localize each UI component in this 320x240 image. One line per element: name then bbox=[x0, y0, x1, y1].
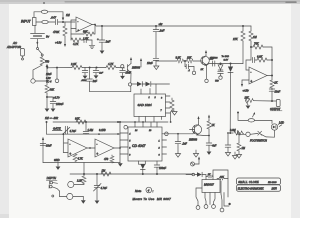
wire zener down to LFO row bbox=[229, 72, 231, 133]
ground under R13 bbox=[246, 106, 251, 109]
ground under C3 bbox=[100, 51, 105, 54]
wire Q2 collector to +9V arrow bbox=[205, 53, 207, 56]
IC U5 CD4047 bbox=[128, 127, 162, 161]
wire bias to U3 + input bbox=[242, 80, 249, 84]
svg-text:2: 2 bbox=[154, 97, 157, 99]
svg-text:10uF: 10uF bbox=[46, 73, 52, 76]
ground under C5 open bbox=[155, 61, 157, 66]
wire Q4 emitter down bbox=[130, 73, 132, 83]
emitter row wire bbox=[207, 64, 244, 66]
svg-text:4: 4 bbox=[148, 188, 150, 192]
capacitor C2 bbox=[81, 39, 84, 41]
junction ring bbox=[121, 65, 124, 68]
ground symbols under footswitch area bbox=[234, 152, 236, 155]
svg-text:1uF: 1uF bbox=[99, 73, 103, 75]
capacitor C3 1uF bbox=[101, 26, 103, 40]
svg-text:2: 2 bbox=[158, 148, 161, 150]
wire oval to LED bbox=[255, 120, 272, 123]
switch oval FS1 bbox=[248, 119, 254, 122]
svg-text:.1uF: .1uF bbox=[182, 143, 187, 146]
svg-text:1: 1 bbox=[159, 141, 160, 143]
svg-text:SAD 1024: SAD 1024 bbox=[138, 103, 152, 107]
svg-text:+: + bbox=[250, 80, 252, 84]
op-amp U1A bbox=[76, 17, 92, 32]
pad circle with wire to +9V arrow bbox=[191, 162, 195, 166]
resistor R4 56K feedback bbox=[84, 32, 94, 36]
svg-text:7: 7 bbox=[161, 110, 163, 112]
feedback loop wire around preamp bbox=[90, 81, 131, 92]
svg-text:2N5088: 2N5088 bbox=[131, 68, 141, 70]
resistor R5 4.7K bbox=[70, 34, 72, 40]
svg-text:2.2K: 2.2K bbox=[76, 180, 82, 183]
svg-text:6: 6 bbox=[129, 148, 131, 150]
svg-text:10K: 10K bbox=[187, 56, 192, 59]
svg-text:1K: 1K bbox=[201, 69, 204, 71]
battery B1 9V bbox=[34, 26, 36, 34]
scan speck bbox=[43, 2, 45, 4]
resistor R25 1K bbox=[208, 120, 210, 121]
svg-text:1K: 1K bbox=[212, 124, 215, 127]
svg-text::: : bbox=[153, 189, 154, 193]
cross contact bbox=[258, 131, 262, 135]
capacitor C23 to ground bbox=[84, 68, 86, 71]
junction ring 2 bbox=[128, 83, 131, 86]
svg-text:4: 4 bbox=[129, 133, 131, 136]
preamp row wire bbox=[47, 67, 72, 69]
ground under R27 bbox=[236, 155, 241, 159]
ground under C17 bbox=[175, 154, 180, 158]
svg-text:1M ⇒ ~10k: 1M ⇒ ~10k bbox=[45, 116, 59, 120]
svg-text:MN3007: MN3007 bbox=[204, 183, 214, 187]
capacitor C18 10uF under 4047 bbox=[156, 161, 158, 165]
svg-text:+: + bbox=[77, 28, 79, 32]
svg-text:100uF: 100uF bbox=[159, 167, 167, 170]
resistor R24 1K above box bbox=[206, 176, 208, 178]
resistor R19 91K bbox=[76, 120, 86, 124]
svg-text:To SAD: To SAD bbox=[222, 55, 230, 58]
op-amp U4A bbox=[68, 139, 87, 157]
resistor R12 1K bbox=[270, 80, 274, 88]
svg-text:10uF: 10uF bbox=[46, 145, 52, 148]
resistor R20 4.7K below U4A bbox=[74, 153, 76, 155]
node C bbox=[184, 60, 186, 62]
LFO line to CD4047 bbox=[53, 121, 168, 123]
svg-text:.0082: .0082 bbox=[81, 80, 87, 82]
SAD1024 top pin stubs bbox=[149, 89, 151, 95]
svg-text:1.5M: 1.5M bbox=[88, 129, 94, 132]
resistor R21 470 below U4B bbox=[111, 155, 113, 156]
svg-text:1M: 1M bbox=[66, 13, 70, 17]
resistor R23 2.2K vertical bbox=[83, 163, 85, 177]
svg-text:-: - bbox=[77, 19, 78, 23]
op-amp U4B bbox=[95, 139, 114, 157]
base stub bbox=[190, 129, 195, 131]
svg-text:56K: 56K bbox=[83, 29, 88, 33]
resistor R15 680 bbox=[45, 85, 49, 93]
output jack J2 bbox=[276, 100, 280, 107]
svg-text:4uF: 4uF bbox=[212, 145, 217, 148]
output wire U4A bbox=[87, 147, 95, 149]
svg-text:4.7uF: 4.7uF bbox=[101, 187, 108, 190]
clock wire 4047 to Q3 base bbox=[162, 133, 193, 135]
svg-text:FOOTSWITCH: FOOTSWITCH bbox=[250, 140, 267, 143]
resistor R22 1M bbox=[101, 172, 111, 176]
resistor R27 1M bbox=[238, 133, 240, 143]
wire cross to LED cathode bbox=[261, 130, 275, 137]
arrowhead down to node bbox=[62, 18, 64, 21]
input jack J1 bbox=[33, 18, 37, 26]
svg-text:100uF: 100uF bbox=[56, 102, 64, 106]
wires MN3007 to pads bbox=[196, 188, 202, 206]
wire emitter to diode row bbox=[132, 83, 137, 85]
feedback wire U4A bbox=[85, 122, 87, 131]
arrow above bbox=[253, 113, 255, 117]
ground under C11 bbox=[51, 109, 56, 112]
svg-text:6.8v: 6.8v bbox=[46, 77, 51, 80]
wire jack tip to bypass switch bbox=[34, 12, 41, 18]
svg-text:DEPTH: DEPTH bbox=[47, 176, 57, 180]
svg-text:6.8K: 6.8K bbox=[257, 54, 263, 58]
interstage wire bbox=[47, 133, 121, 135]
transistor Q3 2N5088 bbox=[192, 125, 201, 134]
wire to arrow node bbox=[48, 12, 63, 18]
output wire U4B to 4047 bbox=[114, 147, 120, 149]
node H bbox=[271, 100, 273, 102]
svg-text:CD 4047: CD 4047 bbox=[132, 144, 145, 148]
node G bbox=[250, 46, 252, 48]
node I bbox=[89, 67, 91, 69]
svg-text:4.7K: 4.7K bbox=[108, 62, 114, 66]
SAD right pin stubs bbox=[166, 95, 171, 97]
svg-text:ELECTRO-HARMONIX: ELECTRO-HARMONIX bbox=[238, 188, 264, 191]
ground open beside SAD bbox=[172, 110, 175, 111]
ground under C19 bbox=[95, 201, 100, 204]
battery switch wire bbox=[37, 39, 39, 48]
svg-text:2.2K: 2.2K bbox=[70, 62, 77, 66]
wire lug2 to ground bbox=[73, 196, 83, 200]
capacitor C15 4.7uF trimmer bbox=[65, 126, 67, 134]
svg-text:14: 14 bbox=[135, 129, 138, 132]
svg-text:1uF: 1uF bbox=[93, 80, 98, 83]
depth wire row bbox=[70, 173, 194, 175]
wire into U3 inverting input bbox=[246, 60, 251, 70]
resistor R29 10K bbox=[217, 178, 219, 180]
wire rails down to pads bbox=[220, 181, 222, 194]
svg-text:1M: 1M bbox=[253, 35, 257, 39]
top scan edge line bbox=[65, 1, 296, 3]
switch SW1b contact oval bbox=[42, 20, 48, 23]
svg-text:10uF: 10uF bbox=[147, 62, 153, 65]
ground under R15 bbox=[45, 109, 50, 112]
svg-text:ADAPTOR: ADAPTOR bbox=[6, 45, 21, 49]
capacitor C12 to ground bbox=[96, 67, 98, 69]
svg-text:1K: 1K bbox=[208, 174, 211, 176]
wire ring to +9V line bbox=[35, 80, 47, 82]
ground under C2 three bars bbox=[89, 44, 95, 46]
IC U6 MN3007 bbox=[202, 180, 220, 193]
svg-text:4.7K: 4.7K bbox=[73, 42, 79, 46]
diode D3 bbox=[137, 82, 142, 87]
ground under C20 bbox=[207, 152, 212, 155]
svg-text:1uF: 1uF bbox=[106, 40, 111, 44]
node J bbox=[85, 121, 87, 123]
svg-text:Mours To Use MN 3007: Mours To Use MN 3007 bbox=[133, 197, 172, 201]
emitter join wire bbox=[199, 134, 210, 137]
ground symbol pair left bbox=[195, 150, 197, 153]
wire jack to switch oval bbox=[36, 21, 41, 23]
capacitor C22 10uF bbox=[40, 144, 46, 146]
wire noninverting input bbox=[71, 28, 76, 30]
svg-text:8: 8 bbox=[161, 98, 163, 100]
svg-text:INPUT: INPUT bbox=[21, 19, 32, 23]
svg-text:10K: 10K bbox=[245, 97, 250, 100]
CD4047 left pin rail bbox=[119, 122, 121, 163]
svg-text:3.3K: 3.3K bbox=[176, 56, 181, 59]
svg-text:.1uF: .1uF bbox=[159, 29, 165, 33]
resistor R8 27K vertical bbox=[242, 25, 244, 27]
bottom pin stubs bbox=[138, 161, 140, 164]
wire to depth pot bbox=[74, 184, 84, 185]
node B bbox=[101, 25, 103, 27]
wire R14 down to power jack ring bbox=[33, 65, 42, 79]
wire U3 output bbox=[267, 75, 272, 77]
diode D5 under 4047 bbox=[140, 164, 145, 169]
resistor R17 4.7K bbox=[106, 66, 116, 70]
wire Q4 collector to +9V bbox=[130, 60, 132, 64]
transistor Q4 2N5088 bbox=[127, 65, 129, 72]
svg-text:27K: 27K bbox=[232, 37, 238, 41]
svg-text:470K: 470K bbox=[53, 30, 59, 34]
ground under C21 bbox=[225, 153, 230, 157]
capacitor C19 4.7uF bbox=[96, 174, 98, 185]
wire loop over box bbox=[213, 170, 228, 197]
wire node to zener circle bbox=[56, 68, 58, 80]
svg-text:1975: 1975 bbox=[272, 189, 278, 191]
main rail wire from U1A output bbox=[92, 24, 95, 26]
footswitch feed wire bbox=[237, 112, 239, 114]
svg-text:4.7K: 4.7K bbox=[78, 158, 83, 161]
resistor R26 6.3M bbox=[234, 131, 243, 135]
clock filter row wire bbox=[156, 60, 177, 62]
svg-text:470: 470 bbox=[104, 158, 109, 161]
diode D6 into MN3007 bbox=[186, 174, 192, 176]
svg-text:9: 9 bbox=[129, 155, 131, 157]
ground circle under C8 bbox=[219, 76, 222, 79]
IC U2 SAD1024 bbox=[134, 94, 166, 117]
capacitor C6 to ground circle bbox=[184, 61, 186, 67]
capacitor C7 1uF bbox=[213, 61, 215, 66]
ground at rail right end bbox=[119, 162, 121, 165]
capacitor C13 10uF to ground bbox=[122, 68, 124, 70]
rate pot lug circle and switch pole bbox=[238, 131, 246, 135]
svg-text:SMALL CLONE: SMALL CLONE bbox=[238, 181, 259, 184]
title block bbox=[237, 178, 281, 185]
svg-text:+4.5v: +4.5v bbox=[243, 90, 250, 93]
resistor R7 10K bbox=[187, 59, 194, 63]
capacitor C20 4uF bbox=[206, 143, 212, 145]
svg-text:+4.5v: +4.5v bbox=[55, 41, 62, 45]
jack ring contact bbox=[31, 79, 35, 83]
ground on rail bbox=[57, 163, 59, 167]
svg-text:.1: .1 bbox=[188, 70, 191, 72]
svg-text:Note: Note bbox=[135, 189, 142, 193]
svg-text:.047: .047 bbox=[51, 16, 57, 20]
svg-text:OUTPUT: OUTPUT bbox=[270, 108, 281, 111]
svg-text:1: 1 bbox=[149, 97, 150, 99]
svg-text:-: - bbox=[69, 142, 70, 146]
wire R7 to Q2 base bbox=[193, 60, 202, 62]
capacitor C17 on 4047 bbox=[177, 134, 179, 142]
svg-text:+: + bbox=[97, 37, 99, 41]
svg-text:9v: 9v bbox=[46, 35, 50, 39]
bias branch up-arrow left of rail bbox=[42, 140, 44, 163]
wire R18 down to LFO wire bbox=[171, 110, 172, 122]
resistor R13 to ground bbox=[254, 100, 273, 102]
LED DL1 bbox=[271, 124, 277, 130]
capacitor C14 1uF bbox=[87, 79, 93, 81]
svg-text:+: + bbox=[69, 152, 71, 156]
svg-text:GATE: GATE bbox=[53, 127, 61, 131]
svg-text:750: 750 bbox=[215, 81, 219, 83]
resistor R9 1M vertical bbox=[250, 26, 252, 31]
feedback loop wire U1A bbox=[94, 25, 95, 35]
svg-text:TO 4: TO 4 bbox=[46, 81, 52, 84]
wire into lug2 from left bbox=[60, 191, 67, 197]
svg-text:1uF: 1uF bbox=[210, 57, 215, 60]
resistor R3 470K vertical bbox=[64, 22, 66, 26]
solder pads bbox=[196, 206, 200, 210]
svg-text:-: - bbox=[250, 70, 251, 74]
+9V arrow mid bbox=[140, 61, 142, 67]
svg-text:6.8V: 6.8V bbox=[224, 60, 229, 62]
lower ground rail bbox=[43, 162, 120, 164]
svg-text:10uF: 10uF bbox=[275, 91, 281, 94]
resistor Q2 emitter to ground circle bbox=[206, 65, 208, 79]
capacitor C4 in series on drop to clock filter bbox=[155, 25, 157, 27]
wire C3 to ground bbox=[101, 42, 103, 50]
switch SW1a contact oval bbox=[41, 10, 47, 13]
diode D1 bbox=[220, 64, 222, 65]
svg-text:68K: 68K bbox=[50, 88, 55, 92]
svg-text:+9.7v: +9.7v bbox=[53, 96, 60, 100]
svg-text:4.7uF: 4.7uF bbox=[70, 130, 77, 133]
capacitor C8 bbox=[218, 71, 224, 73]
svg-text:10K: 10K bbox=[220, 176, 224, 178]
svg-text:LED: LED bbox=[279, 121, 284, 125]
right pin stubs bbox=[162, 139, 167, 141]
capacitor C21 bbox=[227, 133, 229, 145]
svg-text:EH 4600: EH 4600 bbox=[268, 181, 277, 184]
DEPTH pot lug 1 bbox=[68, 181, 74, 187]
svg-text:5: 5 bbox=[129, 141, 131, 143]
+9V distribution wire bbox=[46, 64, 49, 67]
node A bbox=[62, 21, 64, 23]
svg-text:9.1K0: 9.1K0 bbox=[99, 129, 106, 132]
DEPTH pot lug 2 bbox=[67, 193, 73, 199]
capacitor C5 in line bbox=[153, 58, 159, 60]
svg-text:+: + bbox=[96, 152, 98, 156]
svg-text:-: - bbox=[96, 142, 97, 146]
op-amp U3 bbox=[249, 67, 267, 84]
svg-text:2N5088: 2N5088 bbox=[188, 140, 198, 142]
capacitor C1 bbox=[49, 21, 55, 23]
svg-text:6.3M: 6.3M bbox=[230, 129, 236, 132]
rate row junction bbox=[229, 132, 231, 134]
wire R3 to bias arrow bbox=[64, 44, 66, 47]
capacitor C9 + resistor R11 6.8K bbox=[253, 57, 255, 62]
zener D2 bbox=[230, 64, 232, 67]
resistor R10 75K feedback bbox=[251, 46, 253, 48]
transistor Q2 2N5088 bbox=[201, 56, 210, 65]
node zener bbox=[230, 63, 232, 65]
L wire to board dot bbox=[224, 193, 229, 207]
capacitor C10 10uF bbox=[269, 89, 275, 91]
resistor R18 beside SAD bbox=[171, 98, 173, 100]
junction ring at 4047 pin1 bbox=[124, 125, 128, 129]
resistor R16 2.2K bbox=[72, 66, 82, 70]
wire gate line down bbox=[46, 121, 48, 123]
svg-text:750: 750 bbox=[45, 60, 50, 64]
node F bbox=[220, 63, 222, 65]
diode D4 bbox=[146, 82, 151, 87]
svg-text:GND: GND bbox=[54, 159, 60, 162]
pot lug symbols bbox=[50, 181, 53, 184]
svg-text:3: 3 bbox=[159, 155, 161, 157]
svg-text:1K: 1K bbox=[274, 81, 277, 85]
svg-text:1M: 1M bbox=[102, 169, 106, 173]
SAD bottom pin stubs bbox=[138, 117, 140, 123]
wire Q3 collector to +9V arrow bbox=[198, 119, 200, 125]
top pin stubs bbox=[134, 122, 136, 127]
svg-text:91K: 91K bbox=[75, 117, 80, 121]
AC jack J3 bbox=[21, 49, 25, 57]
capacitor C11 100uF bbox=[47, 97, 53, 101]
svg-text:75K: 75K bbox=[254, 42, 259, 46]
svg-text:13: 13 bbox=[149, 130, 152, 132]
resistor R6 3.3K bbox=[177, 59, 184, 63]
left pin stubs bbox=[120, 132, 128, 134]
node +9.7V bbox=[46, 96, 48, 98]
resistor R14 750 bbox=[41, 56, 43, 57]
wire C1 to opamp input bbox=[58, 21, 75, 23]
wire to output jack bbox=[272, 100, 277, 102]
svg-text:1M: 1M bbox=[242, 147, 246, 150]
